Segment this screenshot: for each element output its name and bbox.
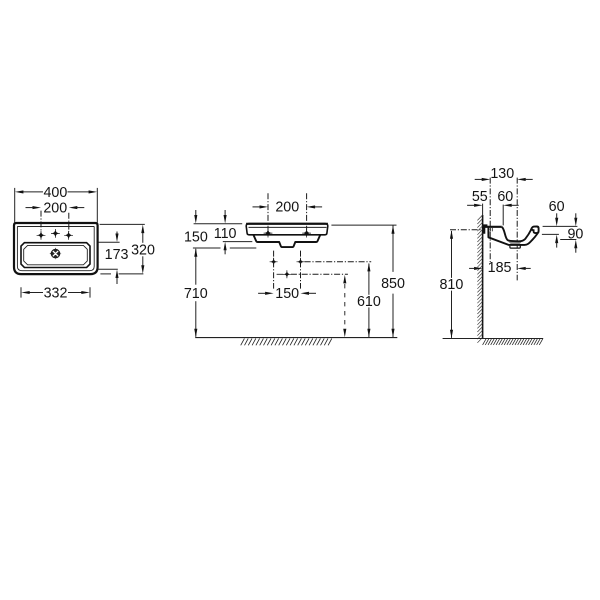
fixing hole right centreline xyxy=(300,251,302,289)
side basin bowl interior xyxy=(502,227,531,241)
svg-text:400: 400 xyxy=(43,185,67,201)
dim 90 arrow top xyxy=(574,218,577,227)
dim 173 arrow bottom xyxy=(115,270,118,279)
svg-text:332: 332 xyxy=(44,285,68,301)
dim 810 arrow top xyxy=(450,230,453,239)
plan tap hole left xyxy=(37,231,46,240)
svg-text:55: 55 xyxy=(472,189,488,205)
side underside extension xyxy=(560,239,576,241)
dim 810 arrow bottom xyxy=(450,330,453,339)
dim 610 arrow top xyxy=(367,263,370,272)
dim 200 plan arrow right xyxy=(69,206,78,209)
dim 173 arrow top xyxy=(115,234,118,243)
svg-text:60: 60 xyxy=(497,189,513,205)
dim 110 arrow top xyxy=(224,215,227,224)
dim 130 arrow left xyxy=(482,178,491,181)
dim 320 arrow bottom xyxy=(141,265,144,274)
dim 320 extension bottom xyxy=(100,273,111,275)
dim 332 extension left xyxy=(20,287,22,297)
dim 400 arrow right xyxy=(89,190,98,193)
dim 200 plan arrow left xyxy=(33,206,42,209)
dim 610 arrow bottom xyxy=(367,329,370,338)
dim 400 arrow left xyxy=(15,190,24,193)
front top extension line xyxy=(194,223,243,225)
fixing axis dashdot side xyxy=(450,229,483,231)
dim 400 line xyxy=(23,191,44,193)
front tap hole left xyxy=(264,229,273,238)
dim 173 extension top xyxy=(99,241,120,243)
svg-text:810: 810 xyxy=(439,277,463,293)
dim 320 line xyxy=(142,231,144,243)
dim 173 extension bottom xyxy=(98,268,118,270)
svg-text:200: 200 xyxy=(43,200,67,216)
dim 850 line xyxy=(392,225,394,272)
drain height arrow top xyxy=(343,275,346,284)
side basin front lip xyxy=(531,227,538,234)
dim 400 extension line left xyxy=(14,188,16,223)
dim 850 arrow bottom xyxy=(391,329,394,338)
dim 320 extension top xyxy=(100,223,145,225)
plan basin inner edge xyxy=(24,245,88,264)
dim 332 line xyxy=(29,292,44,294)
wall bracket xyxy=(483,224,488,233)
plan basin outer edge xyxy=(21,243,90,268)
dim 90 arrow bottom xyxy=(574,240,577,249)
svg-text:150: 150 xyxy=(275,286,299,302)
front view basin body xyxy=(246,224,328,235)
plan drain symbol xyxy=(54,248,57,260)
dim 610 line xyxy=(368,264,370,295)
svg-text:60: 60 xyxy=(549,199,565,215)
dim 110 extension bottom xyxy=(223,241,253,243)
dim 200 front arrow left xyxy=(260,205,269,208)
dim 185 arrow left xyxy=(474,267,483,270)
dim 810 line xyxy=(451,231,453,278)
dim 200 front arrow right xyxy=(307,205,316,208)
side tap hole section xyxy=(489,228,491,231)
plan tap hole centreline left xyxy=(40,211,42,232)
plan tap hole right xyxy=(64,231,73,240)
dim 55 arrow xyxy=(474,204,483,207)
drain hole front xyxy=(283,270,291,278)
side tap axis centreline xyxy=(489,178,491,262)
dim 110 arrow bottom xyxy=(224,242,227,251)
side basin underside xyxy=(488,227,538,245)
plan view inner rim contour xyxy=(17,227,94,271)
side drain axis centreline xyxy=(516,178,518,281)
side drain box xyxy=(510,245,520,248)
dim 710 line xyxy=(195,249,197,285)
svg-text:610: 610 xyxy=(357,294,381,310)
drain height dashed line xyxy=(344,284,346,329)
front view top edge xyxy=(246,223,328,225)
dim 850 extension top xyxy=(331,224,396,226)
dim 320 arrow top xyxy=(141,225,144,234)
front tap centreline left xyxy=(267,193,269,230)
dim 130 arrow right xyxy=(517,178,526,181)
fixing hole right xyxy=(297,258,305,266)
dim 150 holes arrow right xyxy=(301,292,310,295)
svg-text:185: 185 xyxy=(488,260,512,276)
front floor line xyxy=(195,337,397,339)
dim 710 arrow top xyxy=(194,248,197,257)
front view rim inner line xyxy=(249,226,327,228)
side top extension line xyxy=(543,225,578,227)
front view apron and drain box xyxy=(253,235,320,247)
plan tap hole centre xyxy=(51,229,60,238)
svg-text:200: 200 xyxy=(275,200,299,216)
svg-text:173: 173 xyxy=(105,247,129,263)
svg-text:320: 320 xyxy=(131,242,155,258)
side basin top surface xyxy=(485,226,502,228)
svg-text:110: 110 xyxy=(214,226,237,242)
dim 710 arrow bottom xyxy=(194,329,197,338)
wall face extension line xyxy=(482,204,484,215)
svg-text:150: 150 xyxy=(184,229,208,245)
fixing hole left xyxy=(270,258,278,266)
dim 185 arrow right xyxy=(517,267,526,270)
drain axis tick left xyxy=(277,273,284,275)
front floor hatching xyxy=(241,339,245,346)
front tap centreline right xyxy=(306,193,308,230)
dim 150 left arrow top xyxy=(194,215,197,224)
wall hatching xyxy=(477,215,482,220)
dim 400 extension line right xyxy=(96,188,98,223)
fixing hole left centreline xyxy=(273,251,275,289)
side lip bottom extension xyxy=(542,233,559,235)
front lower extension line xyxy=(193,247,221,249)
drain height arrow bottom xyxy=(343,329,346,338)
svg-text:130: 130 xyxy=(490,166,514,182)
dim 60 right arrow bottom xyxy=(555,235,558,244)
svg-text:710: 710 xyxy=(184,286,208,302)
svg-text:850: 850 xyxy=(381,276,405,292)
dim 60 wall arrow xyxy=(503,204,512,207)
dim 150 holes arrow left xyxy=(265,292,274,295)
plan tap hole centreline right xyxy=(68,213,70,232)
side floor hatching xyxy=(483,339,486,345)
svg-text:90: 90 xyxy=(567,226,583,242)
front tap hole right xyxy=(302,229,311,238)
dim 332 extension right xyxy=(89,287,91,297)
tap extension line side xyxy=(502,205,504,226)
dim 850 arrow top xyxy=(391,225,394,234)
dim 332 arrow left xyxy=(21,291,30,294)
fixing holes axis dashdot xyxy=(305,261,372,263)
wall face line xyxy=(482,215,484,339)
plan view outer rim xyxy=(14,223,98,274)
drain axis dashdot xyxy=(291,273,348,275)
side floor line xyxy=(443,338,544,340)
dim 332 arrow right xyxy=(81,291,90,294)
dim 60 right arrow top xyxy=(555,218,558,227)
side basin drain recess xyxy=(509,242,522,245)
